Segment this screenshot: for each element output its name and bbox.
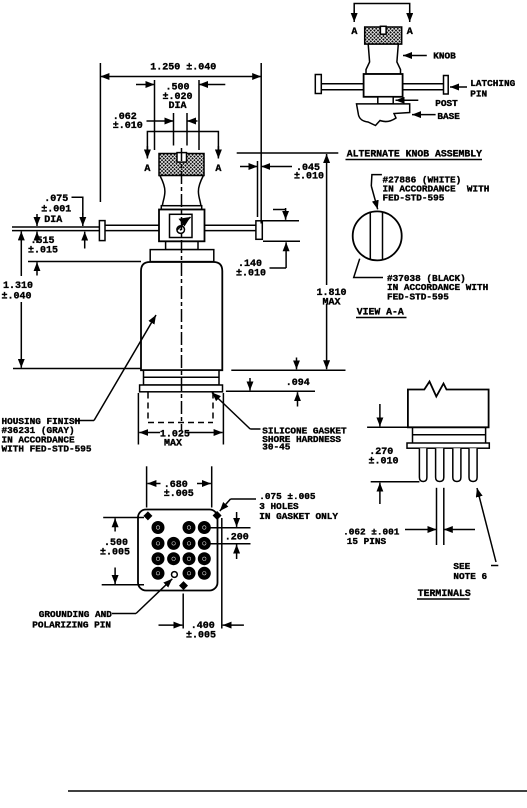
svg-text:±.010: ±.010 <box>236 269 266 280</box>
terminals flange <box>407 443 489 448</box>
svg-text:IN GASKET ONLY: IN GASKET ONLY <box>259 511 338 522</box>
bottom ring band <box>144 370 220 385</box>
svg-text:±.010: ±.010 <box>113 121 143 132</box>
knob knurled head <box>159 154 204 176</box>
svg-text:BASE: BASE <box>437 111 460 122</box>
svg-text:±.005: ±.005 <box>100 548 130 559</box>
slot line left <box>369 213 371 260</box>
svg-text:VIEW A-A: VIEW A-A <box>357 307 404 318</box>
svg-text:MAX: MAX <box>323 298 341 309</box>
dim 1.310 +-.040 <box>20 231 22 276</box>
svg-text:A: A <box>351 27 357 38</box>
dim .062 +-.001 15 pins <box>436 488 438 545</box>
page footer rule <box>68 790 527 792</box>
svg-text:POLARIZING PIN: POLARIZING PIN <box>32 620 111 631</box>
dim .500 +-.020 DIA <box>154 80 156 150</box>
alt latching pin left <box>321 83 363 85</box>
svg-text:NOTE 6: NOTE 6 <box>453 571 487 582</box>
knob base flange <box>161 206 201 210</box>
alt knob knurled head <box>365 27 402 44</box>
main view centerline <box>181 148 183 430</box>
mounting flange <box>140 385 223 392</box>
svg-text:.075: .075 <box>44 194 68 205</box>
svg-text:±.010: ±.010 <box>294 172 324 183</box>
svg-text:±.015: ±.015 <box>28 246 58 257</box>
pin end cap right <box>256 221 262 240</box>
dim .680 +-.005 <box>146 466 148 507</box>
terminals neck bands <box>412 427 414 443</box>
dim .400 +-.005 <box>182 594 184 629</box>
terminal pin 1 <box>419 448 427 481</box>
gasket hole diamond bottom <box>179 581 188 590</box>
knob slot notch <box>177 153 187 163</box>
svg-text:30-45: 30-45 <box>262 442 291 453</box>
svg-text:.200: .200 <box>225 532 249 543</box>
svg-text:KNOB: KNOB <box>433 51 456 62</box>
svg-text:A: A <box>407 27 413 38</box>
svg-text:±.010: ±.010 <box>369 456 399 467</box>
svg-text:±.040: ±.040 <box>2 292 32 303</box>
alt knob tapered body <box>366 44 401 74</box>
view A-A knob face circle <box>353 211 402 260</box>
transition flange <box>150 250 214 262</box>
terminal pin 4 <box>469 448 477 481</box>
post <box>378 97 393 104</box>
cylinder housing <box>141 262 222 370</box>
alt pin end cap left <box>315 75 321 94</box>
alt latching pin right <box>403 83 444 85</box>
svg-text:FED-STD-595: FED-STD-595 <box>383 193 445 204</box>
alt knob body block <box>364 74 403 97</box>
svg-text:GROUNDING AND: GROUNDING AND <box>39 609 113 620</box>
inner plate <box>170 214 193 237</box>
svg-text:A: A <box>215 164 221 175</box>
svg-text:PIN: PIN <box>470 89 487 100</box>
dim .062 +-.010 slot <box>173 113 175 146</box>
alt knob section A-A bracket <box>354 4 410 17</box>
dim .500 +-.005 <box>103 517 144 519</box>
svg-text:ALTERNATE KNOB ASSEMBLY: ALTERNATE KNOB ASSEMBLY <box>347 149 482 160</box>
socket face outline <box>138 510 218 591</box>
neck <box>166 242 198 250</box>
svg-text:POST: POST <box>435 98 458 109</box>
terminal pin 3 <box>453 448 461 481</box>
base (broken section) <box>357 104 410 126</box>
dim .270 +-.010 <box>367 426 408 428</box>
alt knob slot notch <box>380 26 386 34</box>
dim .045 +-.010 <box>257 161 259 217</box>
svg-text:WITH FED-STD-595: WITH FED-STD-595 <box>2 444 92 455</box>
knob top extension line <box>237 152 339 154</box>
svg-text:1.250 ±.040: 1.250 ±.040 <box>150 63 216 74</box>
dim .094 gasket <box>231 369 345 371</box>
screw slot symbol <box>177 217 191 230</box>
dim 1.250 +-.040 latching pin length <box>99 63 101 202</box>
dim .140 +-.010 <box>263 220 299 222</box>
latching pin left <box>105 224 159 226</box>
latching pin right <box>205 224 257 226</box>
svg-text:DIA: DIA <box>169 101 187 112</box>
svg-text:3 HOLES: 3 HOLES <box>259 501 299 512</box>
terminal pin 2 <box>436 448 444 481</box>
svg-text:±.001: ±.001 <box>41 205 71 216</box>
svg-text:MAX: MAX <box>164 439 182 450</box>
dim 1.025 MAX <box>137 393 139 445</box>
terminals body with break line <box>408 382 489 428</box>
svg-text:.094: .094 <box>286 378 310 389</box>
knob post body <box>159 210 205 242</box>
svg-text:±.005: ±.005 <box>164 489 194 500</box>
contact pins grid <box>152 521 211 580</box>
gasket hole diamond top-right <box>213 511 222 520</box>
svg-text:±.005: ±.005 <box>186 630 216 641</box>
gasket hole diamond top-left <box>143 511 152 520</box>
svg-text:A: A <box>144 164 150 175</box>
grounding and polarizing pin <box>172 572 178 578</box>
alt pin end cap right <box>444 76 449 95</box>
svg-text:DIA: DIA <box>44 215 62 226</box>
dim 1.810 MAX <box>326 154 328 285</box>
knob waist <box>160 176 204 206</box>
slot line right <box>382 212 384 260</box>
body bottom line <box>159 240 205 242</box>
svg-text:TERMINALS: TERMINALS <box>418 588 471 599</box>
dim .200 <box>208 527 251 529</box>
section A-A cutting line (main view) <box>147 132 218 151</box>
svg-text:FED-STD-595: FED-STD-595 <box>387 292 449 303</box>
svg-text:1.310: 1.310 <box>3 281 33 292</box>
hidden silicone gasket dashed <box>148 393 213 423</box>
pin end cap left <box>99 221 105 241</box>
svg-text:15 PINS: 15 PINS <box>347 536 387 547</box>
svg-text:LATCHING: LATCHING <box>470 78 515 89</box>
